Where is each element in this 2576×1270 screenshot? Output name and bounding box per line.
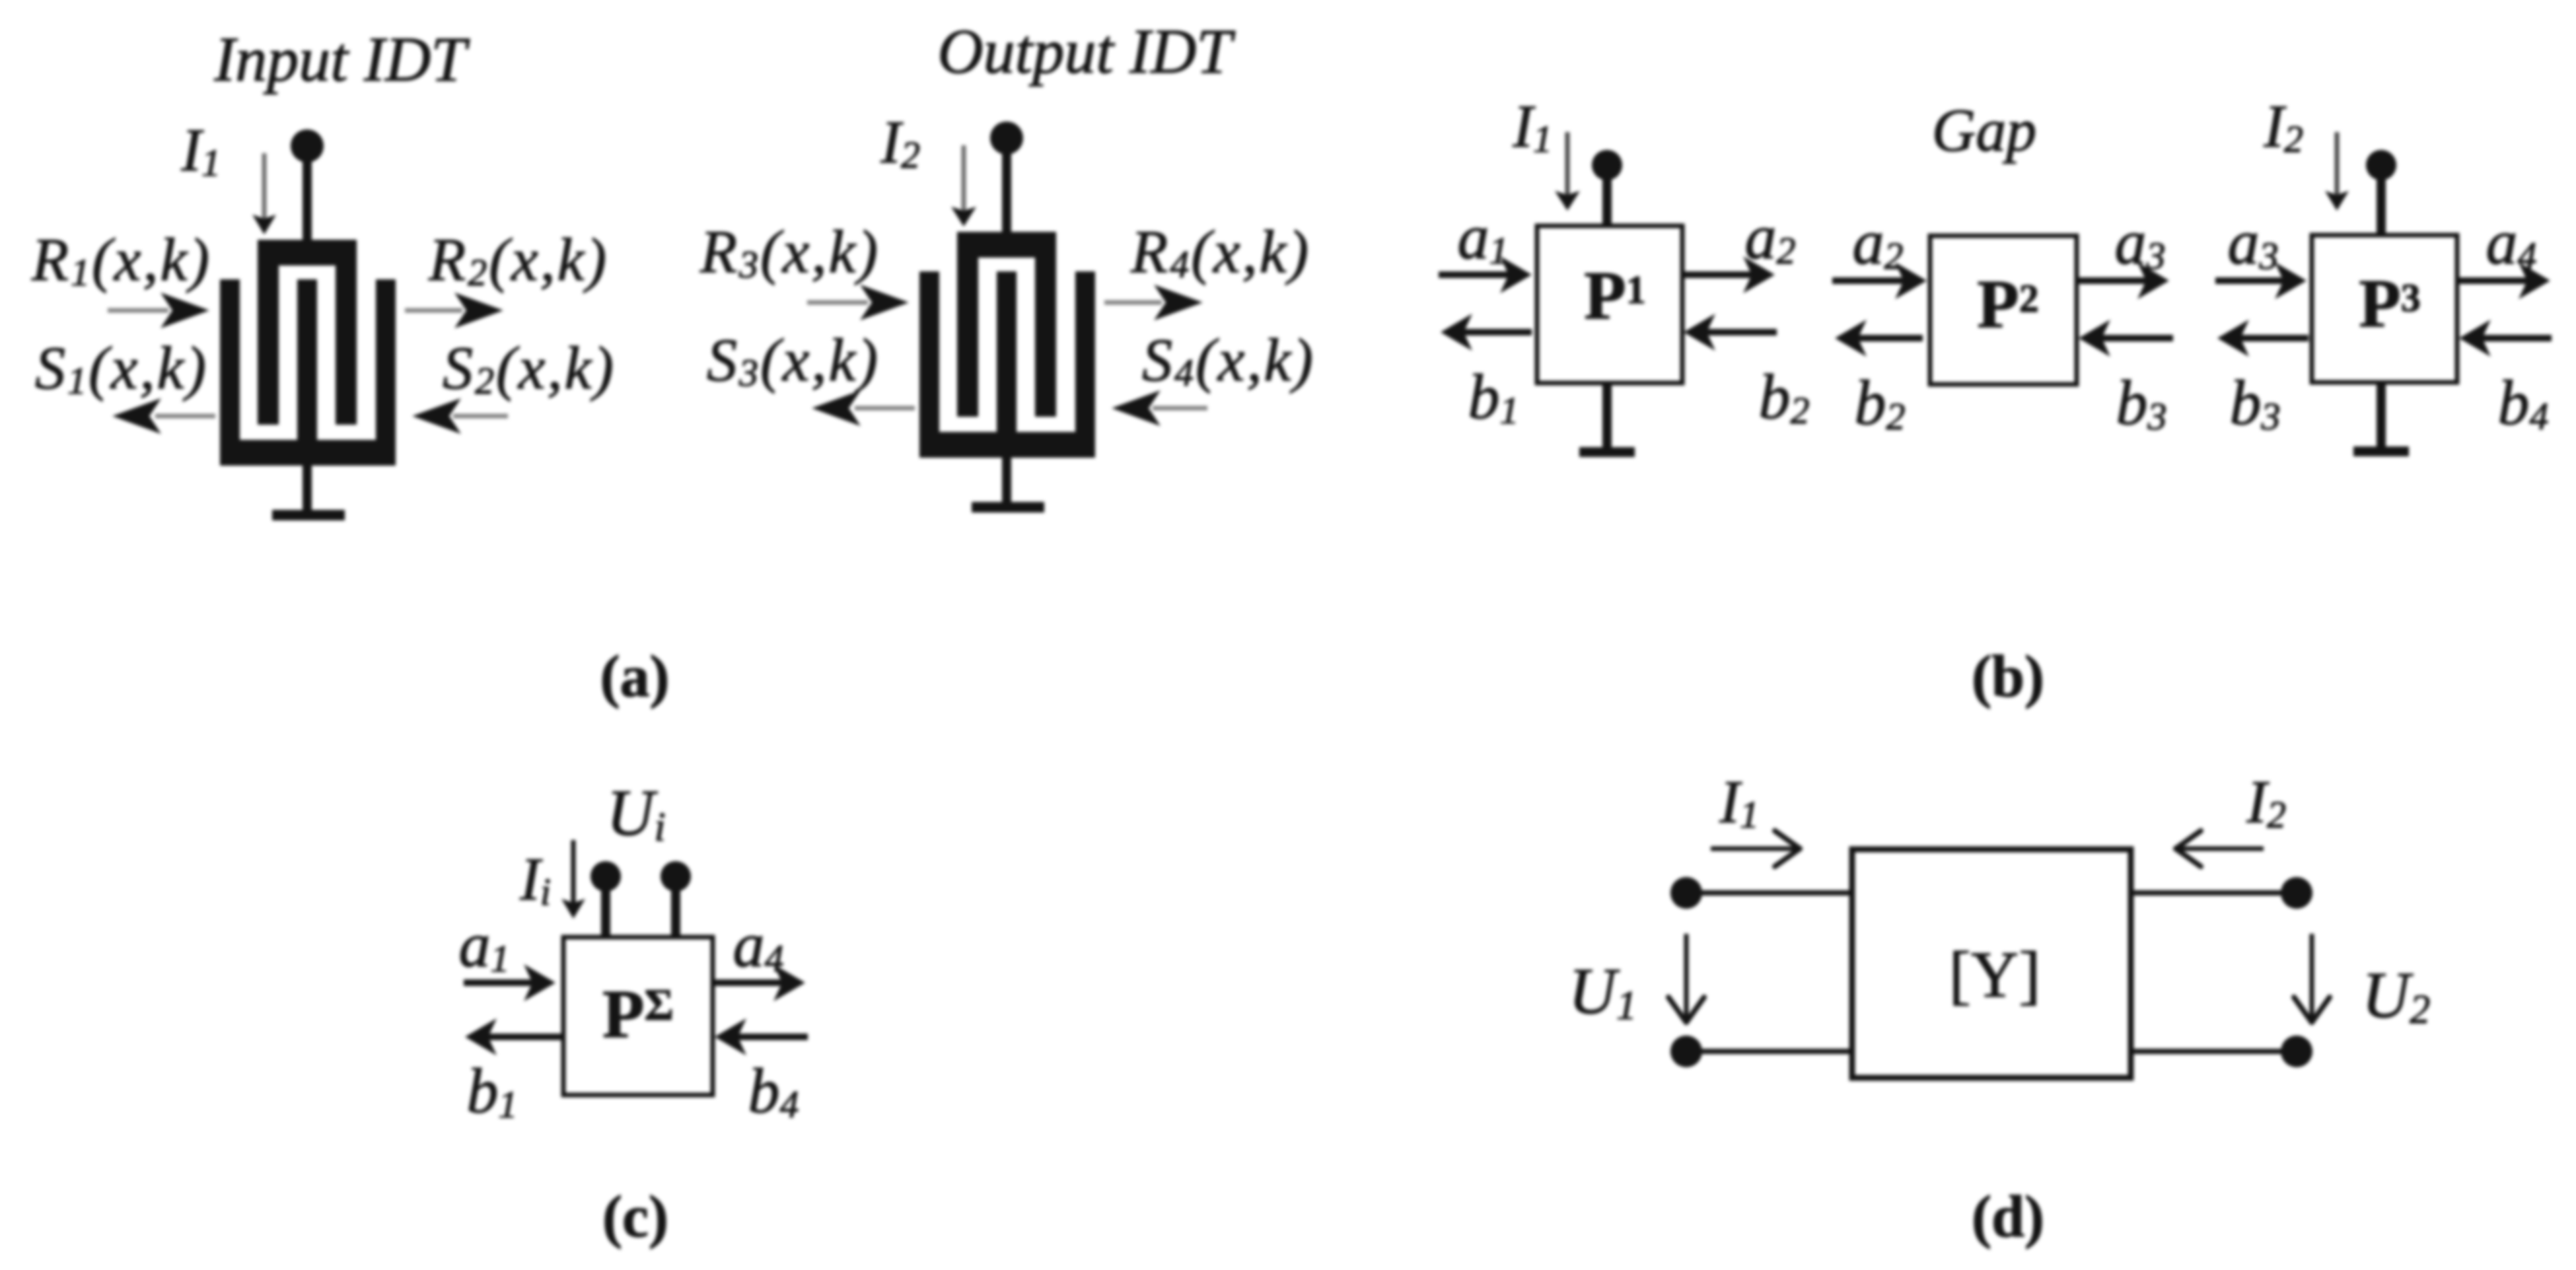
svg-text:(c): (c) — [602, 1184, 668, 1250]
svg-text:P2: P2 — [1977, 266, 2039, 342]
svg-text:I2: I2 — [2246, 768, 2286, 836]
svg-text:b2: b2 — [1855, 367, 1906, 438]
svg-text:S4(x,k): S4(x,k) — [1142, 326, 1315, 394]
svg-text:a2: a2 — [1853, 207, 1904, 277]
svg-text:I1: I1 — [1719, 768, 1759, 836]
svg-text:S1(x,k): S1(x,k) — [35, 334, 208, 402]
svg-text:a4: a4 — [2486, 207, 2537, 277]
svg-text:S3(x,k): S3(x,k) — [707, 326, 880, 394]
svg-text:Gap: Gap — [1932, 96, 2036, 164]
svg-text:Output IDT: Output IDT — [937, 16, 1236, 87]
svg-text:a3: a3 — [2228, 207, 2279, 277]
svg-text:Ui: Ui — [606, 776, 665, 850]
svg-text:(a): (a) — [600, 644, 670, 709]
svg-text:Input IDT: Input IDT — [213, 24, 470, 94]
svg-text:b3: b3 — [2230, 367, 2281, 438]
svg-text:I1: I1 — [180, 116, 221, 184]
svg-text:a4: a4 — [733, 909, 784, 980]
svg-text:I1: I1 — [1512, 92, 1552, 160]
svg-text:R1(x,k): R1(x,k) — [31, 226, 211, 294]
svg-text:P1: P1 — [1584, 258, 1646, 334]
svg-text:S2(x,k): S2(x,k) — [443, 334, 616, 402]
svg-text:a1: a1 — [459, 909, 510, 980]
svg-text:[Y]: [Y] — [1949, 938, 2041, 1011]
svg-text:a3: a3 — [2115, 207, 2166, 277]
svg-text:b2: b2 — [1759, 361, 1810, 432]
svg-text:a1: a1 — [1458, 201, 1509, 272]
svg-text:P3: P3 — [2359, 265, 2421, 341]
svg-text:a2: a2 — [1745, 201, 1796, 272]
svg-text:Ii: Ii — [519, 845, 551, 913]
svg-text:U2: U2 — [2362, 958, 2430, 1032]
svg-text:R4(x,k): R4(x,k) — [1130, 218, 1310, 286]
svg-text:b1: b1 — [1468, 361, 1519, 432]
svg-text:(d): (d) — [1972, 1184, 2044, 1250]
svg-text:I2: I2 — [880, 108, 920, 176]
svg-text:b3: b3 — [2116, 367, 2167, 438]
svg-text:PΣ: PΣ — [602, 976, 674, 1052]
svg-text:U1: U1 — [1569, 954, 1637, 1028]
svg-text:R2(x,k): R2(x,k) — [428, 226, 608, 294]
svg-text:b4: b4 — [2498, 367, 2549, 438]
svg-text:I2: I2 — [2263, 92, 2303, 160]
svg-text:(b): (b) — [1972, 644, 2044, 709]
svg-text:b4: b4 — [748, 1055, 799, 1126]
svg-text:R3(x,k): R3(x,k) — [699, 218, 880, 286]
svg-text:b1: b1 — [467, 1055, 518, 1126]
